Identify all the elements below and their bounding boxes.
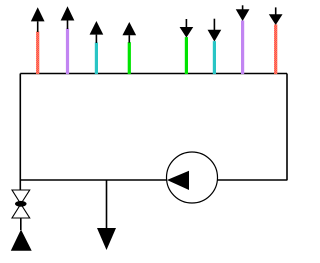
stream arrow S5 green in bbox=[180, 19, 194, 74]
stream arrow S1 red out bbox=[31, 7, 45, 74]
wire below valve bbox=[20, 218, 22, 230]
valve V1 branch wire bbox=[19, 180, 21, 190]
terminator up triangle bbox=[11, 230, 32, 251]
wire bottom pipe bbox=[20, 179, 288, 181]
stream arrow S6 cyan in bbox=[208, 19, 222, 74]
stream arrow S7 lavender in bbox=[236, 5, 250, 74]
stream arrow S4 green out bbox=[122, 22, 136, 74]
stream arrow S8 red in bbox=[269, 7, 283, 74]
stream arrow S3 cyan out bbox=[90, 21, 104, 74]
stream arrow S2 lavender out bbox=[61, 6, 75, 74]
drain arrowhead down bbox=[97, 228, 116, 250]
drain branch wire bbox=[106, 180, 108, 229]
wire top pipe bbox=[20, 73, 287, 75]
pump P1 bbox=[167, 152, 218, 203]
wire right pipe bbox=[286, 74, 288, 181]
valve V1 bbox=[12, 190, 30, 218]
wire left pipe bbox=[19, 74, 21, 181]
